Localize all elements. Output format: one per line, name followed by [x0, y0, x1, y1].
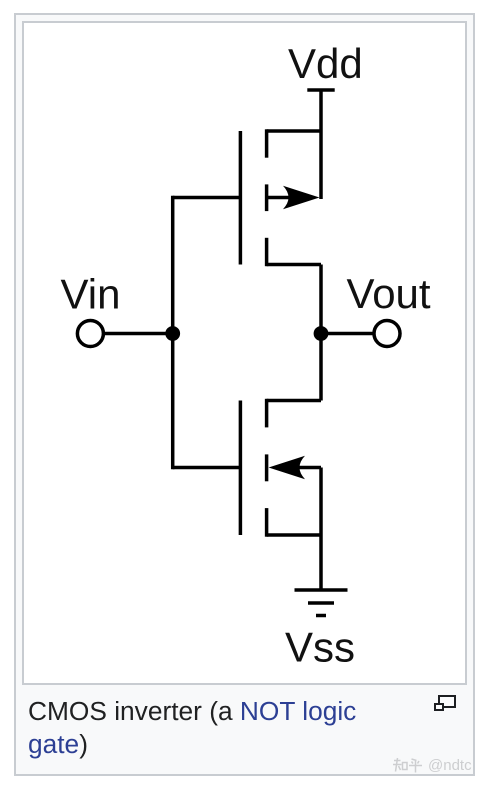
transistor Q1 PMOS drain lead — [267, 263, 321, 267]
transistor Q2 NMOS gate bar — [239, 401, 243, 536]
transistor Q2 NMOS channel bottom segment — [265, 508, 269, 537]
wire gate bus vertical — [171, 196, 175, 470]
transistor Q1 PMOS source lead — [267, 129, 321, 133]
transistor Q2 NMOS drain lead — [267, 399, 321, 403]
watermark glyph 知 — [393, 758, 407, 772]
transistor Q1 PMOS channel top segment — [265, 129, 269, 157]
ground Vss symbol bar 1 — [295, 588, 348, 592]
wire NMOS bulk/source to ground — [319, 468, 323, 591]
wire Vout node to NMOS drain — [319, 334, 323, 401]
ground Vss symbol bar 2 — [308, 601, 334, 605]
magnify icon large rectangle — [438, 695, 456, 708]
watermark glyph 乎 — [409, 759, 422, 773]
svg-text:@ndtc: @ndtc — [428, 757, 472, 774]
wire NMOS gate lead — [173, 466, 241, 470]
junction dot Vout node — [314, 326, 329, 341]
wire Vout node to terminal — [321, 332, 387, 336]
magnify icon small rectangle — [434, 703, 444, 712]
caption text — [28, 695, 368, 761]
transistor Q2 NMOS source lead — [267, 533, 321, 537]
transistor Q1 PMOS channel bottom segment — [265, 238, 269, 266]
transistor Q2 NMOS bulk lead — [297, 466, 321, 470]
ground Vss symbol bar 3 — [316, 614, 326, 618]
transistor Q2 NMOS channel top segment — [265, 399, 269, 428]
figure inner image box — [22, 21, 467, 685]
wire Vin terminal to gate bus — [92, 332, 173, 336]
junction dot Vin node — [165, 326, 180, 341]
transistor Q1 PMOS gate bar — [239, 131, 243, 265]
transistor Q1 PMOS channel middle segment — [265, 184, 269, 211]
wire PMOS gate lead — [173, 196, 241, 200]
transistor Q2 NMOS channel middle segment — [265, 454, 269, 481]
transistor Q2 NMOS bulk arrow (points left) — [269, 456, 305, 479]
wire PMOS drain to Vout node — [319, 265, 323, 334]
wire Vdd to PMOS source — [319, 90, 323, 199]
Vdd power terminal bar — [307, 88, 334, 92]
terminal Vout circle — [374, 321, 400, 347]
terminal Vin circle — [77, 321, 103, 347]
transistor Q1 PMOS bulk arrow (points right) — [283, 186, 320, 209]
transistor Q1 PMOS bulk stub — [267, 196, 296, 200]
